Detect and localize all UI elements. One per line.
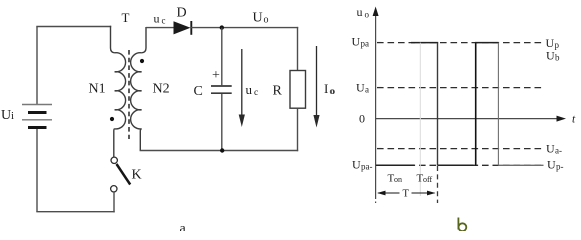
svg-text:U: U — [1, 108, 11, 123]
svg-text:U: U — [253, 11, 263, 26]
battery plate long 1 — [22, 104, 52, 106]
wire C bottom lead — [221, 94, 223, 151]
N1 loop 1 — [115, 53, 126, 72]
resistor R — [290, 27, 306, 151]
N2 loop 4 — [131, 110, 142, 129]
svg-text:on: on — [394, 175, 402, 184]
label Upa — [352, 35, 370, 49]
diode triangle — [174, 21, 191, 34]
dashed level line Ua- — [377, 148, 544, 150]
node junction bottom of C — [220, 148, 224, 152]
waveform high segment pulse 2 — [475, 42, 499, 44]
N2 loop 1 — [131, 53, 142, 72]
label Uo — [253, 11, 269, 26]
N1 polarity dot — [110, 117, 114, 121]
label uc top — [154, 12, 166, 26]
svg-text:u: u — [246, 82, 253, 97]
wire R top lead — [297, 27, 299, 71]
wire secondary bottom rail — [140, 150, 299, 152]
wire diode to output corner — [191, 27, 298, 29]
battery source Ui — [22, 27, 52, 212]
waveform low segment 2 — [438, 164, 474, 166]
svg-text:+: + — [212, 68, 220, 83]
switch bottom contact — [111, 186, 117, 192]
label Up right — [546, 36, 560, 50]
wire N1 bottom lead — [113, 129, 116, 157]
node junction top of C — [220, 25, 224, 29]
svg-text:D: D — [177, 6, 187, 21]
svg-text:R: R — [273, 84, 283, 99]
svg-text:p-: p- — [556, 162, 564, 172]
svg-text:N1: N1 — [89, 82, 106, 97]
label Ton — [388, 173, 403, 185]
label uc (capacitor voltage) — [246, 82, 259, 98]
label Upa- — [352, 158, 373, 172]
svg-text:c: c — [162, 16, 166, 26]
wire N2 bottom lead — [140, 129, 141, 151]
switch top contact — [111, 157, 117, 163]
svg-text:C: C — [194, 84, 203, 99]
switch K — [111, 157, 131, 212]
C plate top — [211, 85, 232, 87]
R body — [290, 71, 306, 109]
svg-text:o: o — [331, 86, 336, 96]
svg-text:u: u — [154, 12, 160, 26]
transformer T winding N1 — [110, 26, 126, 157]
waveform falling edge pulse 2 — [497, 43, 499, 166]
wire C top lead — [221, 28, 223, 86]
label b (subfigure, olive) — [458, 218, 466, 232]
label Ui — [1, 108, 14, 123]
waveform low segment Ton — [376, 164, 415, 166]
svg-text:U: U — [546, 49, 555, 63]
wire R bottom lead — [297, 108, 299, 151]
dashed level line Upa — [377, 42, 544, 44]
svg-text:t: t — [572, 114, 576, 126]
svg-text:c: c — [254, 88, 258, 98]
wire N1 top lead — [111, 26, 115, 53]
wire battery top lead — [36, 27, 38, 105]
C plate bottom — [211, 92, 232, 94]
switch blade — [117, 164, 131, 185]
axis vertical uo — [373, 7, 379, 204]
svg-text:b: b — [555, 53, 560, 63]
svg-text:o: o — [365, 10, 370, 20]
label Ua — [356, 81, 369, 95]
battery plate long 2 — [22, 119, 52, 121]
svg-text:u: u — [357, 5, 363, 19]
axis horizontal t — [375, 116, 566, 122]
battery plate short thick 2 — [28, 126, 47, 129]
svg-text:i: i — [11, 110, 14, 122]
svg-text:U: U — [546, 142, 555, 156]
svg-text:N2: N2 — [153, 82, 170, 97]
svg-text:0: 0 — [359, 112, 365, 126]
transformer T winding N2 — [131, 27, 146, 151]
svg-text:U: U — [352, 35, 361, 49]
waveform high segment pulse 1 — [411, 42, 438, 44]
battery plate short thick 1 — [28, 111, 47, 114]
svg-text:K: K — [132, 168, 142, 183]
N1 loop 4 — [115, 110, 126, 129]
label Io — [324, 81, 335, 97]
svg-text:a-: a- — [555, 146, 562, 156]
diode D — [174, 21, 192, 35]
wire secondary top (N2 to diode) — [146, 27, 174, 29]
wire battery bottom lead — [36, 129, 38, 212]
svg-text:U: U — [547, 158, 556, 172]
wire N2 top lead — [142, 27, 146, 53]
dashed level line Upa- — [377, 164, 544, 166]
N2 loop 3 — [131, 91, 142, 110]
wire primary top — [36, 26, 111, 28]
label Toff — [417, 173, 433, 185]
wire switch to bottom rail — [113, 192, 115, 212]
waveform low segment 3 (gray) — [498, 164, 543, 166]
svg-text:p: p — [555, 40, 560, 50]
svg-text:o: o — [264, 15, 269, 26]
arrow uc across capacitor — [239, 49, 245, 127]
svg-text:a: a — [365, 85, 369, 95]
N2 loop 2 — [131, 72, 142, 91]
svg-text:U: U — [352, 158, 361, 172]
svg-text:T: T — [122, 10, 130, 25]
dimension arrow T period — [377, 189, 436, 200]
waveform falling edge pulse 1 — [437, 43, 439, 166]
dashed level line Ua — [377, 87, 544, 89]
marker dashed vertical below pulse1 fall — [437, 166, 439, 203]
svg-text:pa-: pa- — [361, 162, 373, 172]
label Up- right — [547, 158, 564, 172]
marker light vertical Ton end — [419, 43, 421, 196]
label uo axis — [357, 5, 370, 20]
svg-text:pa: pa — [361, 39, 370, 49]
N2 polarity dot — [140, 59, 144, 63]
svg-text:T: T — [403, 189, 410, 200]
svg-text:I: I — [324, 81, 328, 96]
label Ub right — [546, 49, 560, 63]
svg-text:a: a — [180, 222, 187, 232]
svg-text:off: off — [423, 175, 433, 184]
N1 loop 2 — [115, 72, 126, 91]
wire primary bottom — [36, 211, 114, 213]
capacitor C — [211, 28, 232, 151]
label Ua- right — [546, 142, 562, 156]
transformer core — [128, 50, 130, 139]
diode cathode bar — [190, 21, 192, 35]
svg-text:U: U — [356, 81, 365, 95]
arrow Io load current — [313, 46, 319, 128]
waveform rising edge pulse 2 — [475, 43, 477, 166]
N1 loop 3 — [115, 91, 126, 110]
